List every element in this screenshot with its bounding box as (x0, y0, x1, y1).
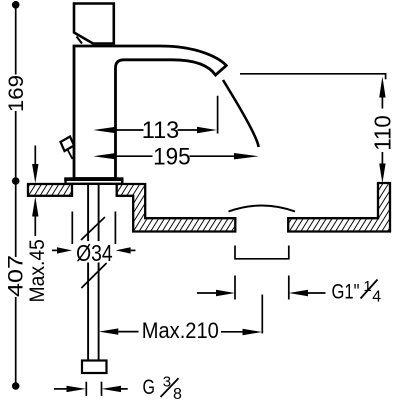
dim 110 extension line from spout level (240, 73, 386, 75)
base plate (66, 179, 123, 184)
hose slash B (81, 263, 106, 288)
svg-text:G1": G1" (332, 280, 360, 303)
dim 195 right arrow at water stream (234, 153, 259, 159)
svg-text:195: 195 (153, 144, 191, 171)
svg-text:8: 8 (173, 386, 182, 400)
svg-text:4: 4 (372, 289, 381, 306)
dim Ø34 extension lines (71, 212, 73, 245)
knob arm (68, 150, 73, 160)
hose connector (82, 361, 107, 374)
svg-text:169: 169 (3, 75, 27, 112)
dim Max.45 down arrow at counter top (32, 164, 38, 183)
drain centerline (261, 295, 263, 334)
dim 195 left arrow at faucet axis (93, 153, 116, 159)
dim G1"1/4 extension line right (288, 276, 290, 300)
dim Max.45 line lower (34, 217, 36, 237)
svg-text:110: 110 (369, 115, 395, 151)
dim Max.210 right arrow at drain centerline (221, 331, 243, 333)
dim Max.210 left arrow at tailpiece (99, 328, 119, 334)
dim 110 line upper (381, 98, 383, 109)
label Ø34 (75, 241, 113, 263)
dot mid (12, 177, 20, 185)
dim G1"1/4 extension line left (234, 276, 236, 300)
dim 110 down arrow at counter (379, 164, 385, 184)
dim G1"1/4 left arrow (197, 292, 216, 294)
dim 113 right arrow (197, 127, 217, 133)
dim Ø34 left arrow (52, 249, 58, 251)
svg-text:G: G (143, 376, 156, 399)
svg-text:Ø34: Ø34 (76, 240, 113, 266)
dim G 3/8 extension tick right (101, 382, 103, 396)
dim G 3/8 right arrow (102, 386, 121, 392)
dim 195 line right (190, 155, 235, 157)
countertop right-of-faucet basin step section (117, 184, 236, 232)
dot bottom (12, 382, 20, 390)
dim 110 extension end tick (385, 73, 387, 79)
svg-text:407: 407 (4, 255, 28, 297)
dim 113 left arrow at faucet axis (93, 127, 116, 133)
dim 113 extension tick (217, 96, 219, 134)
svg-text:113: 113 (142, 117, 180, 144)
svg-text:Max.45: Max.45 (26, 239, 49, 302)
drain bracket (235, 246, 289, 259)
tailpiece shaft left line (87, 184, 89, 361)
handle lever block (74, 4, 114, 44)
countertop left section (28, 184, 72, 196)
dim G 3/8 extension tick left (85, 382, 87, 396)
dim Max.45 up arrow at counter bottom (32, 197, 38, 217)
dim 110 line lower (381, 152, 383, 164)
svg-text:Max.210: Max.210 (142, 318, 219, 343)
dim 113 line left (116, 129, 144, 131)
dim 169/407 vertical line (15, 5, 17, 386)
dim G1"1/4 right arrow (289, 290, 308, 296)
side knob (flag) (61, 137, 75, 152)
water stream arc (223, 80, 259, 147)
faucet body and spout (74, 46, 226, 179)
dim Max.45 line upper (34, 146, 36, 168)
dim 195 line left (116, 155, 153, 157)
hose slash A (81, 217, 105, 240)
label G 3/8 (143, 374, 183, 400)
label G1"1/4 (332, 278, 382, 306)
lever seam (77, 37, 83, 44)
dim 113 line right (178, 129, 198, 131)
dot top (12, 1, 20, 9)
tailpiece shaft right line (98, 184, 100, 361)
dim G 3/8 left arrow (54, 388, 67, 390)
dim 110 up arrow (379, 77, 385, 98)
dim Ø34 right arrow (116, 247, 131, 253)
basin bottom arc over drain (229, 206, 296, 212)
countertop right section (288, 183, 390, 232)
